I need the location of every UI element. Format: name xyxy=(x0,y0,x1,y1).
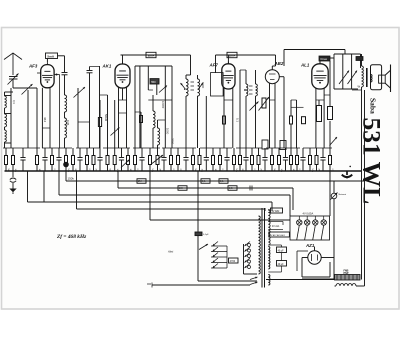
wire xyxy=(271,202,273,211)
rail y202 xyxy=(28,201,273,203)
wire xyxy=(289,195,291,216)
svg-text:4V AB2: 4V AB2 xyxy=(272,210,280,213)
antenna coil L1 xyxy=(5,96,7,114)
IF2 trimmer xyxy=(244,89,258,110)
wire mains return xyxy=(266,279,335,281)
label AL1 xyxy=(300,63,310,68)
svg-text:10000: 10000 xyxy=(161,101,165,109)
secondary winding 1 xyxy=(268,210,270,246)
label Saba xyxy=(369,98,378,114)
padder box xyxy=(150,79,159,84)
svg-text:Abst: Abst xyxy=(167,250,173,254)
rail y181 xyxy=(66,180,365,182)
matching arrow 1 xyxy=(339,71,349,85)
fuse strip xyxy=(335,275,361,281)
label Zf 468 kHz xyxy=(56,234,87,240)
IF1 core xyxy=(191,82,195,90)
resistor R5 xyxy=(98,100,101,148)
secondary winding 3 xyxy=(268,275,270,286)
osc coil L6 xyxy=(153,95,155,148)
label AK1 xyxy=(102,64,112,69)
label Abst xyxy=(167,250,173,254)
label 10000 xyxy=(161,101,165,109)
IF1 secondary xyxy=(198,75,200,148)
switch arrow band xyxy=(330,137,338,146)
dial lamps L1-L4 xyxy=(297,216,327,240)
wire drop x198 xyxy=(197,171,199,281)
svg-text:0,1: 0,1 xyxy=(236,118,240,122)
oscillator rail xyxy=(135,66,172,148)
wire speaker xyxy=(352,89,362,91)
wire xyxy=(240,70,246,148)
svg-text:3300: 3300 xyxy=(171,138,175,145)
IF1 trimmer arrows xyxy=(181,83,204,90)
wire drop A xyxy=(27,171,29,202)
filter cap 1 xyxy=(277,247,287,253)
meter box 5mA xyxy=(46,53,58,62)
antenna coil L3 xyxy=(5,130,7,148)
box Dmax xyxy=(319,56,330,64)
resistor on rail y181 a xyxy=(137,179,146,184)
wire anode feed xyxy=(58,56,65,72)
tube AK1 xyxy=(115,62,130,88)
wire tie xyxy=(42,127,50,129)
tap loop AL1 xyxy=(268,222,283,230)
resistor on rail y181 b xyxy=(201,179,210,184)
label FNB xyxy=(344,270,349,276)
svg-text:2mA: 2mA xyxy=(148,54,155,58)
speaker voice coil xyxy=(371,75,373,83)
resistor on rail y181 c xyxy=(219,179,228,184)
capacitor C3 xyxy=(62,73,68,96)
wire xyxy=(90,66,100,148)
speaker cone xyxy=(385,65,390,93)
wire tie xyxy=(119,112,127,114)
svg-text:Zf = 468 kHz: Zf = 468 kHz xyxy=(56,234,87,240)
trimmer C4 xyxy=(74,87,86,98)
grid cap AK1 xyxy=(87,67,93,149)
wire drop G xyxy=(149,171,151,220)
RF coil L4 xyxy=(65,95,67,118)
wire xyxy=(215,55,217,73)
mains choke xyxy=(335,284,365,287)
selector arrows xyxy=(244,242,258,275)
tube AK1 pins xyxy=(119,87,127,149)
capacitor on rail y188 xyxy=(250,186,252,191)
field coil xyxy=(362,54,364,90)
anode rail 1mA xyxy=(216,52,276,64)
wire xyxy=(100,95,108,148)
volume pot xyxy=(259,97,270,111)
svg-text:AL1: AL1 xyxy=(300,63,310,68)
svg-text:4V 0,65A: 4V 0,65A xyxy=(303,212,314,216)
grid box AF7 xyxy=(211,73,224,96)
svg-text:1W: 1W xyxy=(179,187,183,190)
primary arrows xyxy=(250,277,258,285)
tap box heaters xyxy=(268,232,289,237)
tube AB2 xyxy=(265,66,279,84)
svg-text:4V AF7,AF3,AK1: 4V AF7,AF3,AK1 xyxy=(270,234,286,237)
wire xyxy=(158,66,166,148)
wire AL1 anode xyxy=(330,58,334,89)
chassis bus xyxy=(5,170,362,172)
svg-text:AZ1: AZ1 xyxy=(305,243,315,248)
IF2 primary xyxy=(246,70,248,148)
wire xyxy=(291,100,297,148)
rail y188 xyxy=(118,187,293,189)
svg-text:AF3: AF3 xyxy=(28,64,38,69)
resistor 4700 xyxy=(229,258,239,263)
RF coil L5 xyxy=(65,118,67,148)
antenna coil L2 xyxy=(5,114,7,130)
switch S3 xyxy=(152,155,163,164)
svg-text:464: 464 xyxy=(43,117,47,122)
label 0,1 xyxy=(236,118,240,122)
wire drop E xyxy=(76,171,78,209)
svg-text:1000: 1000 xyxy=(166,128,170,135)
IF1 primary xyxy=(186,55,191,148)
tube AF3 xyxy=(41,62,54,88)
label 50k xyxy=(104,114,108,122)
wire xyxy=(292,188,294,210)
label W xyxy=(358,85,361,89)
label 1101 xyxy=(66,120,70,126)
svg-text:2M: 2M xyxy=(138,180,141,183)
wire drop F xyxy=(117,171,119,188)
svg-text:0,5: 0,5 xyxy=(229,187,233,190)
wire drop lamp box xyxy=(329,171,331,216)
antenna xyxy=(4,53,22,75)
tap lines xyxy=(211,246,227,268)
label 0,4 xyxy=(12,100,16,104)
tube AF3 pins xyxy=(37,73,60,148)
band switch arrow xyxy=(121,160,130,168)
label AB2 xyxy=(274,61,284,66)
volume pot dot xyxy=(63,162,69,168)
resistor R8 xyxy=(223,116,226,124)
lamp box xyxy=(290,216,330,240)
component band resistors/capacitors xyxy=(5,148,334,173)
label AZ1 xyxy=(305,243,315,248)
switch S1 xyxy=(111,100,120,148)
wire drop B xyxy=(43,171,45,202)
resistor on rail y188 a xyxy=(178,186,187,191)
anode rail 2mA xyxy=(121,52,191,64)
ground symbol left xyxy=(9,171,16,194)
HT rail right B xyxy=(364,90,366,284)
label 464 xyxy=(43,117,47,122)
wire xyxy=(78,88,90,148)
svg-text:W: W xyxy=(358,85,361,89)
output transformer taps xyxy=(334,54,361,89)
label 1000 xyxy=(166,128,170,135)
label AF7 xyxy=(209,63,219,68)
IF2 secondary xyxy=(256,70,258,148)
mains antenna jack xyxy=(331,181,347,208)
antenna trimmer capacitor xyxy=(8,74,19,89)
detector load boxes xyxy=(262,140,286,150)
osc coil L7 xyxy=(158,120,160,148)
wire AB2 feed xyxy=(272,55,275,66)
svg-text:AF7: AF7 xyxy=(209,63,219,68)
transformer core xyxy=(262,208,265,288)
svg-text:4V AL1: 4V AL1 xyxy=(272,225,280,228)
svg-text:40 µF: 40 µF xyxy=(278,264,285,266)
wire left rail xyxy=(5,88,12,148)
cathode resistor xyxy=(316,100,324,122)
AZ1 bottom line xyxy=(302,278,334,280)
speaker housing xyxy=(371,65,382,90)
HT rail right A xyxy=(361,90,363,280)
label 4V lamps xyxy=(303,212,314,216)
svg-text:4700: 4700 xyxy=(230,260,236,263)
resistor on rail y188 b xyxy=(228,186,237,191)
primary winding xyxy=(259,216,261,274)
hang wires xyxy=(3,147,332,149)
svg-text:150k: 150k xyxy=(68,177,75,181)
speaker pole piece xyxy=(366,68,368,87)
label AF3 xyxy=(28,64,38,69)
svg-text:531 WL: 531 WL xyxy=(358,118,387,205)
wire xyxy=(334,88,358,90)
ground symbol right xyxy=(342,166,352,179)
node antenna junction xyxy=(5,88,38,96)
wire drop D xyxy=(65,171,67,181)
svg-text:AK1: AK1 xyxy=(102,64,112,69)
resistor R10 xyxy=(290,100,293,148)
svg-text:550: 550 xyxy=(151,80,156,84)
selector circles xyxy=(248,244,251,269)
rail y209 xyxy=(77,208,266,210)
cap wires xyxy=(268,245,281,272)
svg-text:0,1µF: 0,1µF xyxy=(203,234,209,236)
tube AF7 xyxy=(222,62,235,90)
svg-text:1mA: 1mA xyxy=(229,54,236,58)
speaker label box xyxy=(356,57,363,61)
svg-text:40 µF: 40 µF xyxy=(278,250,285,252)
svg-text:0,4: 0,4 xyxy=(12,100,16,104)
resistor R6 xyxy=(135,112,143,148)
wire drop C xyxy=(58,171,60,195)
svg-text:5mA: 5mA xyxy=(47,54,54,58)
wire xyxy=(148,66,172,100)
tap arrows xyxy=(213,242,219,269)
svg-text:0,1: 0,1 xyxy=(202,180,206,183)
tube AZ1 xyxy=(308,247,321,265)
wire xyxy=(205,96,207,148)
AZ1 wires xyxy=(297,208,334,279)
rail y195 xyxy=(59,194,290,196)
svg-text:Dmax: Dmax xyxy=(321,58,328,61)
bottom wire xyxy=(198,280,257,282)
trimmer C2 xyxy=(22,84,33,148)
svg-text:Netzant: Netzant xyxy=(339,193,347,196)
tube AL1 pins xyxy=(316,88,324,148)
tap box 4V AB2 xyxy=(268,208,282,213)
wire xyxy=(36,88,38,148)
label 531 WL xyxy=(358,118,387,205)
svg-text:Saba: Saba xyxy=(369,98,378,114)
switch S2 xyxy=(159,86,167,93)
resistor R11 xyxy=(292,107,306,123)
label 150k xyxy=(68,177,75,181)
secondary winding 2 xyxy=(268,247,270,270)
svg-text:1101: 1101 xyxy=(66,120,70,126)
capacitor box 5000 xyxy=(195,232,209,236)
filter cap 2 xyxy=(277,261,287,267)
matching arrow 2 xyxy=(348,71,358,85)
wire xyxy=(139,66,141,148)
wire xyxy=(264,208,266,211)
speaker magnet xyxy=(379,75,386,83)
rail y220 xyxy=(150,219,290,221)
label 3300 xyxy=(171,138,175,145)
switch S4 xyxy=(199,244,208,250)
tube AB2 pins xyxy=(270,83,276,148)
label 1000 xyxy=(201,82,205,89)
svg-text:0,1: 0,1 xyxy=(220,180,224,183)
wire AB2 diode xyxy=(279,77,284,148)
tube AL1 xyxy=(312,62,328,90)
screen resistor xyxy=(324,61,332,148)
mains wire xyxy=(147,283,250,288)
IF2 core xyxy=(249,86,253,94)
B+ top wire xyxy=(284,50,345,67)
tube AF7 pins xyxy=(224,88,233,148)
